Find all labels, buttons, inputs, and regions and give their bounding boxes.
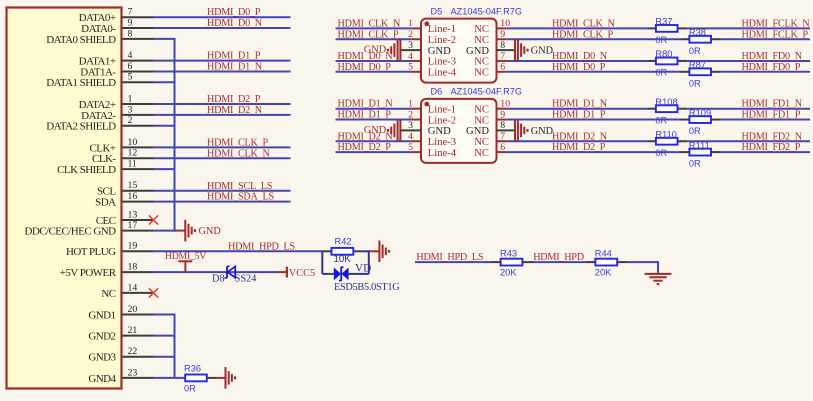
svg-text:Line-3: Line-3 bbox=[428, 57, 456, 68]
svg-text:HDMI_FD1_P: HDMI_FD1_P bbox=[742, 110, 801, 121]
svg-text:HDMI_FD2_P: HDMI_FD2_P bbox=[742, 142, 801, 153]
svg-text:Line-4: Line-4 bbox=[428, 148, 457, 159]
svg-text:6: 6 bbox=[128, 61, 133, 72]
svg-text:HDMI_FD2_N: HDMI_FD2_N bbox=[742, 131, 803, 142]
svg-text:+5V POWER: +5V POWER bbox=[60, 267, 117, 279]
svg-text:Line-1: Line-1 bbox=[428, 104, 456, 115]
svg-text:8: 8 bbox=[500, 40, 505, 51]
svg-text:R42: R42 bbox=[335, 237, 352, 247]
svg-text:7: 7 bbox=[128, 7, 133, 18]
svg-text:SDA: SDA bbox=[95, 197, 116, 209]
svg-text:R43: R43 bbox=[500, 249, 517, 259]
svg-text:AZ1045-04F.R7G: AZ1045-04F.R7G bbox=[451, 87, 523, 97]
svg-text:GND4: GND4 bbox=[88, 373, 116, 385]
svg-text:Line-3: Line-3 bbox=[428, 137, 456, 148]
svg-text:3: 3 bbox=[408, 120, 413, 131]
svg-text:HDMI_D1_P: HDMI_D1_P bbox=[552, 110, 606, 121]
svg-text:HOT PLUG: HOT PLUG bbox=[66, 246, 116, 258]
svg-text:HDMI_FD0_N: HDMI_FD0_N bbox=[742, 51, 803, 62]
svg-text:19: 19 bbox=[128, 241, 138, 252]
svg-text:20: 20 bbox=[128, 304, 138, 315]
svg-text:8: 8 bbox=[128, 28, 133, 39]
svg-text:HDMI_D2_P: HDMI_D2_P bbox=[207, 94, 261, 105]
svg-text:ESD5B5.0ST1G: ESD5B5.0ST1G bbox=[334, 282, 400, 293]
svg-text:R110: R110 bbox=[655, 129, 677, 139]
svg-text:20K: 20K bbox=[595, 268, 612, 278]
svg-text:20K: 20K bbox=[500, 268, 517, 278]
svg-text:NC: NC bbox=[474, 104, 489, 115]
svg-text:HDMI_FCLK_P: HDMI_FCLK_P bbox=[742, 29, 809, 40]
svg-text:0R: 0R bbox=[689, 126, 701, 136]
svg-text:R109: R109 bbox=[689, 108, 711, 118]
svg-text:R44: R44 bbox=[595, 249, 612, 259]
svg-text:17: 17 bbox=[128, 220, 138, 231]
svg-text:16: 16 bbox=[128, 191, 138, 202]
svg-text:HDMI_CLK_N: HDMI_CLK_N bbox=[552, 18, 615, 29]
svg-text:NC: NC bbox=[474, 35, 489, 46]
svg-text:7: 7 bbox=[500, 131, 505, 142]
svg-text:DATA1 SHIELD: DATA1 SHIELD bbox=[46, 77, 116, 89]
svg-text:3: 3 bbox=[128, 104, 133, 115]
svg-text:GND: GND bbox=[466, 46, 489, 57]
svg-text:HDMI_D1_P: HDMI_D1_P bbox=[207, 51, 261, 62]
svg-text:Line-2: Line-2 bbox=[428, 35, 456, 46]
svg-text:R87: R87 bbox=[689, 60, 706, 70]
svg-text:HDMI_HPD_LS: HDMI_HPD_LS bbox=[416, 252, 483, 263]
svg-text:GND: GND bbox=[531, 126, 554, 137]
svg-text:22: 22 bbox=[128, 346, 138, 357]
svg-text:GND3: GND3 bbox=[88, 352, 116, 364]
svg-text:NC: NC bbox=[474, 24, 489, 35]
svg-text:SS24: SS24 bbox=[235, 274, 257, 285]
svg-text:HDMI_CLK_P: HDMI_CLK_P bbox=[338, 29, 399, 40]
svg-text:13: 13 bbox=[128, 209, 138, 220]
svg-text:GND: GND bbox=[531, 46, 554, 57]
svg-text:HDMI_D0_P: HDMI_D0_P bbox=[338, 62, 392, 73]
svg-text:8: 8 bbox=[500, 120, 505, 131]
svg-text:HDMI_5V: HDMI_5V bbox=[165, 251, 206, 262]
svg-text:HDMI_CLK_N: HDMI_CLK_N bbox=[207, 148, 270, 159]
svg-text:HDMI_FD0_P: HDMI_FD0_P bbox=[742, 62, 801, 73]
svg-text:HDMI_FD1_N: HDMI_FD1_N bbox=[742, 99, 803, 110]
svg-text:HDMI_SCL_LS: HDMI_SCL_LS bbox=[207, 181, 273, 192]
svg-text:GND: GND bbox=[428, 126, 451, 137]
svg-text:23: 23 bbox=[128, 367, 138, 378]
svg-text:GND1: GND1 bbox=[88, 309, 115, 321]
svg-text:NC: NC bbox=[474, 115, 489, 126]
svg-text:VCC5: VCC5 bbox=[289, 268, 315, 279]
svg-text:HDMI_SDA_LS: HDMI_SDA_LS bbox=[207, 192, 274, 203]
svg-text:Line-2: Line-2 bbox=[428, 115, 456, 126]
svg-text:R80: R80 bbox=[655, 49, 672, 59]
svg-text:9: 9 bbox=[128, 17, 133, 28]
svg-text:GND: GND bbox=[428, 46, 451, 57]
svg-text:9: 9 bbox=[500, 29, 505, 40]
svg-text:10: 10 bbox=[128, 137, 138, 148]
svg-text:4: 4 bbox=[128, 50, 133, 61]
svg-text:HDMI_D0_N: HDMI_D0_N bbox=[552, 51, 608, 62]
svg-text:DATA2 SHIELD: DATA2 SHIELD bbox=[46, 121, 116, 133]
svg-text:12: 12 bbox=[128, 148, 138, 159]
svg-text:18: 18 bbox=[128, 262, 138, 273]
svg-text:1: 1 bbox=[128, 93, 133, 104]
svg-text:0R: 0R bbox=[184, 384, 196, 394]
svg-text:HDMI_D0_N: HDMI_D0_N bbox=[207, 18, 263, 29]
svg-text:HDMI_D1_N: HDMI_D1_N bbox=[552, 99, 608, 110]
svg-text:GND: GND bbox=[364, 125, 387, 136]
svg-text:DATA0 SHIELD: DATA0 SHIELD bbox=[46, 34, 116, 46]
svg-text:3: 3 bbox=[408, 40, 413, 51]
svg-text:HDMI_CLK_N: HDMI_CLK_N bbox=[338, 18, 401, 29]
svg-text:2: 2 bbox=[128, 115, 133, 126]
svg-text:D5: D5 bbox=[431, 6, 443, 16]
svg-text:HDMI_D0_P: HDMI_D0_P bbox=[552, 62, 606, 73]
svg-text:NC: NC bbox=[474, 57, 489, 68]
svg-text:HDMI_CLK_P: HDMI_CLK_P bbox=[552, 29, 613, 40]
svg-text:0R: 0R bbox=[689, 159, 701, 169]
svg-text:6: 6 bbox=[500, 142, 505, 153]
svg-text:Line-1: Line-1 bbox=[428, 24, 456, 35]
svg-text:14: 14 bbox=[128, 282, 138, 293]
svg-text:HDMI_D1_N: HDMI_D1_N bbox=[338, 99, 394, 110]
svg-text:D8: D8 bbox=[212, 274, 225, 285]
svg-text:GND: GND bbox=[364, 45, 387, 56]
svg-text:0R: 0R bbox=[689, 46, 701, 56]
svg-text:GND: GND bbox=[466, 126, 489, 137]
svg-text:9: 9 bbox=[500, 109, 505, 120]
svg-text:NC: NC bbox=[474, 137, 489, 148]
svg-text:HDMI_D2_P: HDMI_D2_P bbox=[338, 142, 392, 153]
svg-text:10K: 10K bbox=[334, 254, 352, 265]
svg-text:VD: VD bbox=[355, 263, 371, 275]
svg-text:HDMI_HPD: HDMI_HPD bbox=[533, 252, 584, 263]
svg-text:NC: NC bbox=[474, 68, 489, 79]
svg-text:GND: GND bbox=[199, 226, 222, 237]
svg-text:CLK SHIELD: CLK SHIELD bbox=[57, 164, 116, 176]
svg-text:HDMI_D1_N: HDMI_D1_N bbox=[207, 61, 263, 72]
svg-text:6: 6 bbox=[500, 62, 505, 73]
svg-text:7: 7 bbox=[500, 51, 505, 62]
svg-text:HDMI_D2_N: HDMI_D2_N bbox=[207, 105, 263, 116]
svg-text:0R: 0R bbox=[689, 78, 701, 88]
svg-text:HDMI_D2_P: HDMI_D2_P bbox=[552, 142, 606, 153]
svg-text:HDMI_FCLK_N: HDMI_FCLK_N bbox=[742, 18, 811, 29]
svg-text:R38: R38 bbox=[689, 27, 706, 37]
svg-text:15: 15 bbox=[128, 180, 138, 191]
svg-text:R108: R108 bbox=[655, 97, 677, 107]
svg-text:AZ1045-04F.R7G: AZ1045-04F.R7G bbox=[451, 6, 523, 16]
svg-text:HDMI_D2_N: HDMI_D2_N bbox=[552, 131, 608, 142]
svg-text:HDMI_HPD_LS: HDMI_HPD_LS bbox=[228, 241, 295, 252]
svg-text:HDMI_CLK_P: HDMI_CLK_P bbox=[207, 137, 268, 148]
svg-text:R36: R36 bbox=[184, 363, 201, 373]
svg-text:R111: R111 bbox=[689, 140, 710, 150]
svg-text:NC: NC bbox=[101, 288, 115, 300]
svg-text:R37: R37 bbox=[655, 17, 672, 27]
svg-text:11: 11 bbox=[128, 159, 138, 170]
svg-text:Line-4: Line-4 bbox=[428, 68, 457, 79]
svg-text:GND2: GND2 bbox=[88, 331, 115, 343]
svg-text:21: 21 bbox=[128, 325, 138, 336]
svg-text:5: 5 bbox=[128, 72, 133, 83]
svg-text:NC: NC bbox=[474, 148, 489, 159]
svg-text:HDMI_D0_P: HDMI_D0_P bbox=[207, 7, 261, 18]
svg-text:DDC/CEC/HEC GND: DDC/CEC/HEC GND bbox=[24, 226, 116, 238]
svg-text:D6: D6 bbox=[431, 87, 443, 97]
svg-text:HDMI_D1_P: HDMI_D1_P bbox=[338, 110, 392, 121]
